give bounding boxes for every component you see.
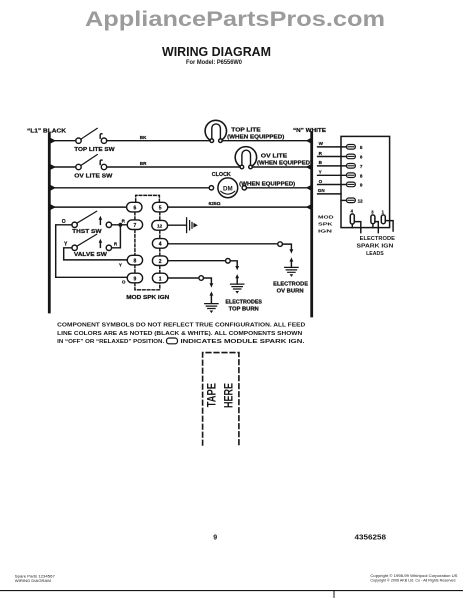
electrode lead 4 <box>350 209 361 233</box>
wire stub O pin9 <box>318 184 347 186</box>
note module symbol <box>167 338 178 344</box>
svg-text:MOD SPK IGN: MOD SPK IGN <box>126 295 169 301</box>
svg-text:IN “OFF” OR “RELAXED” POSITION: IN “OFF” OR “RELAXED” POSITION. <box>57 339 164 345</box>
svg-text:TOP BURN: TOP BURN <box>229 306 259 312</box>
switch VALVE SW <box>72 234 112 250</box>
footer fine print right <box>370 574 458 582</box>
junction row3-right <box>306 185 311 190</box>
svg-text:B: B <box>319 160 323 165</box>
electrode lead 3 <box>371 210 378 233</box>
svg-text:O: O <box>122 280 126 285</box>
switch TOP LITE SW <box>76 128 107 143</box>
svg-text:(WHEN EQUIPPED): (WHEN EQUIPPED) <box>239 181 295 187</box>
svg-text:LEADS: LEADS <box>366 251 384 257</box>
svg-text:(WHEN EQUIPPED): (WHEN EQUIPPED) <box>227 134 285 140</box>
svg-text:Y: Y <box>64 241 68 247</box>
svg-text:AppliancePartsPros.com: AppliancePartsPros.com <box>85 8 385 31</box>
svg-text:“N” WHITE: “N” WHITE <box>293 128 327 134</box>
wire row1 bus to switch <box>49 140 75 142</box>
spark gap pin12 <box>187 218 198 233</box>
wire row1 lamp to N bus <box>222 140 312 142</box>
electrode top burner ground B <box>205 283 218 313</box>
wire pin2 run <box>168 260 226 262</box>
svg-text:625Ω: 625Ω <box>209 201 221 206</box>
dashed connector bracket top <box>136 195 160 201</box>
svg-text:Copyright © 2006 AKB Ltd. Co -: Copyright © 2006 AKB Ltd. Co - All Right… <box>370 578 455 582</box>
svg-text:4356258: 4356258 <box>355 532 387 541</box>
svg-text:MOD: MOD <box>318 215 334 221</box>
svg-text:5: 5 <box>159 205 162 211</box>
svg-text:1: 1 <box>159 276 162 282</box>
svg-text:DM: DM <box>223 185 233 192</box>
pin9 header <box>346 182 355 187</box>
pin 4 <box>152 239 167 249</box>
svg-text:WIRING DIAGRAM: WIRING DIAGRAM <box>162 45 271 59</box>
svg-text:WIRING DIAGRAM: WIRING DIAGRAM <box>15 579 51 583</box>
electrode lead 1 <box>381 210 393 231</box>
svg-text:OV BURN: OV BURN <box>277 288 304 294</box>
svg-text:6: 6 <box>134 205 137 211</box>
svg-text:HERE: HERE <box>222 383 236 408</box>
wire row1 switch to lamp <box>107 140 210 142</box>
lamp TOP LITE <box>205 120 226 142</box>
pin 9 <box>127 273 142 283</box>
wire stub W pin5 <box>318 146 347 148</box>
pin 5 <box>152 202 167 212</box>
dashed connector bracket bottom <box>135 283 160 290</box>
wire pin4 elbow <box>282 244 291 250</box>
junction row1-left <box>51 138 57 144</box>
module box MOD SPK IGN <box>341 136 390 227</box>
node R junction <box>118 223 122 227</box>
pin 1 <box>152 273 167 283</box>
svg-text:IGN: IGN <box>318 229 333 235</box>
junction row2-left <box>51 164 57 170</box>
svg-text:7: 7 <box>360 164 363 169</box>
wire pin1 elbow <box>204 278 212 284</box>
svg-text:For Model: P6556W0: For Model: P6556W0 <box>186 60 243 66</box>
pin 2 <box>152 256 167 266</box>
svg-text:TOP LITE SW: TOP LITE SW <box>74 147 114 153</box>
junction row1-right <box>306 138 311 143</box>
svg-text:SPK: SPK <box>318 222 333 228</box>
junction row3-left <box>51 185 57 191</box>
wire pin1 run <box>168 277 199 279</box>
svg-text:9: 9 <box>134 276 137 282</box>
svg-text:O: O <box>62 219 66 225</box>
svg-text:ELECTRODE: ELECTRODE <box>360 236 396 242</box>
svg-text:OV LITE SW: OV LITE SW <box>74 174 112 180</box>
wire stub B pin7 <box>318 165 347 167</box>
svg-text:8: 8 <box>360 173 363 178</box>
wire row2 switch to lamp <box>107 166 240 168</box>
svg-text:SPARK IGN: SPARK IGN <box>357 243 394 249</box>
wire row2 bus to switch <box>49 166 75 168</box>
switch OV LITE SW <box>76 155 107 170</box>
svg-text:7: 7 <box>134 223 137 229</box>
svg-text:COMPONENT SYMBOLS DO NOT REFLE: COMPONENT SYMBOLS DO NOT REFLECT TRUE CO… <box>57 322 305 328</box>
pin8 header <box>346 173 355 178</box>
node pin1 <box>199 276 204 281</box>
svg-text:TOP LITE: TOP LITE <box>231 128 261 134</box>
pin5 header <box>346 145 355 150</box>
pin 6 <box>127 202 142 212</box>
label ELECTRODE SPARK IGN LEADS <box>357 236 396 257</box>
wire stub R pin6 <box>318 156 347 158</box>
junction row4-right <box>306 204 311 209</box>
switch THST SW <box>72 211 112 227</box>
svg-text:CLOCK: CLOCK <box>212 172 231 178</box>
svg-text:ELECTRODE: ELECTRODE <box>273 281 309 287</box>
wire pin12 stub <box>341 199 346 201</box>
svg-text:9: 9 <box>213 534 217 541</box>
svg-text:8: 8 <box>134 258 137 264</box>
bus L1 (left vertical feed line) <box>48 134 51 312</box>
svg-text:BK: BK <box>140 135 147 140</box>
svg-text:(WHEN EQUIPPED): (WHEN EQUIPPED) <box>257 160 312 166</box>
bus N (right vertical feed line) <box>310 133 313 317</box>
svg-text:BR: BR <box>140 161 147 166</box>
label MOD SPK IGN module <box>318 215 334 235</box>
pin 12 <box>152 220 168 230</box>
node pin4 <box>278 242 283 247</box>
wire valve Y to pin8 <box>64 248 128 260</box>
svg-text:VALVE SW: VALVE SW <box>74 252 107 258</box>
dashed connector axis left <box>134 212 136 273</box>
svg-text:12: 12 <box>358 198 364 203</box>
svg-text:“L1” BLACK: “L1” BLACK <box>27 129 66 135</box>
svg-text:2: 2 <box>159 259 162 265</box>
dashed connector axis right <box>159 212 161 273</box>
svg-text:LINE COLORS ARE AS NOTED (BLAC: LINE COLORS ARE AS NOTED (BLACK & WHITE)… <box>57 331 302 337</box>
svg-text:R: R <box>122 219 126 224</box>
svg-text:6: 6 <box>360 155 363 160</box>
svg-text:4: 4 <box>159 242 162 248</box>
pin7 header <box>346 164 355 169</box>
wire pin2 elbow <box>230 261 237 267</box>
svg-text:3: 3 <box>371 210 374 215</box>
wire stub GN <box>318 193 341 195</box>
lamp OV LITE <box>235 147 256 169</box>
note text <box>57 322 305 345</box>
footer fine print left <box>15 575 55 583</box>
svg-text:4: 4 <box>351 209 354 214</box>
wire row3 clock to N bus <box>247 187 312 189</box>
electrode top burner ground A <box>231 266 244 294</box>
svg-text:Y: Y <box>319 170 322 175</box>
wire row4 pin5 to N bus <box>168 206 312 208</box>
svg-text:9: 9 <box>360 183 363 188</box>
wire pin12 to spark gap <box>168 224 186 226</box>
wire stub Y pin8 <box>318 174 347 176</box>
svg-text:12: 12 <box>157 224 163 229</box>
pin 8 <box>127 255 142 265</box>
wire valve to node R <box>112 227 121 248</box>
svg-text:ELECTRODES: ELECTRODES <box>225 299 262 305</box>
footer tick <box>333 591 335 598</box>
svg-text:R: R <box>114 242 118 247</box>
wire row4 bus to pin6 <box>49 206 126 208</box>
wire thst O to pin9 <box>56 225 128 277</box>
node pin2 <box>226 259 231 264</box>
footer rule <box>0 590 463 592</box>
junction row4-left <box>51 204 57 210</box>
pin6 header <box>346 154 355 159</box>
svg-text:W: W <box>319 141 324 146</box>
wire pin4 run <box>168 243 278 245</box>
svg-text:1: 1 <box>382 210 385 215</box>
svg-text:5: 5 <box>360 145 363 150</box>
svg-text:O: O <box>319 179 323 184</box>
svg-text:OV LITE: OV LITE <box>261 154 288 160</box>
svg-text:GN: GN <box>318 188 326 193</box>
electrode OV BURN ground <box>285 249 298 277</box>
wire thst to pin7 <box>112 224 128 226</box>
pin12 header <box>346 198 355 203</box>
svg-text:TAPE: TAPE <box>205 383 219 407</box>
tape here dashed box <box>203 353 239 445</box>
pin 7 <box>127 220 142 230</box>
svg-text:INDICATES MODULE SPARK IGN.: INDICATES MODULE SPARK IGN. <box>181 339 306 345</box>
wire row3 bus to clock <box>49 187 209 189</box>
junction row2-right <box>306 164 311 169</box>
wire row2 lamp to N bus <box>252 166 311 168</box>
svg-text:Y: Y <box>119 263 122 268</box>
clock DM <box>209 178 246 198</box>
svg-text:R: R <box>319 151 323 156</box>
